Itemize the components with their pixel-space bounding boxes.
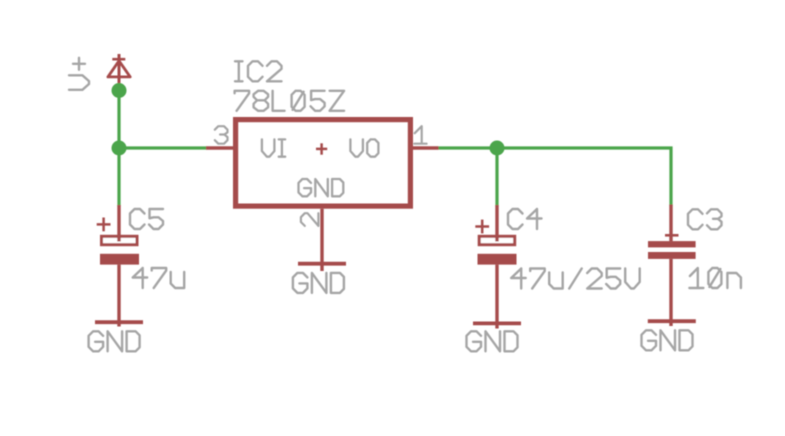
wire V+ down to C5: [117, 88, 120, 206]
IC2 name label: [235, 61, 282, 81]
pin number 3: [215, 126, 228, 144]
capacitor C5 top pin: [117, 205, 120, 242]
net label V+ (rotated): [69, 58, 89, 90]
capacitor C5 polarity +: [97, 218, 111, 232]
ground symbol below C4: [473, 321, 521, 325]
ground label GND below C3: [642, 330, 693, 350]
supply symbol V+ (arrow): [108, 54, 130, 89]
capacitor C4 positive plate (outline): [479, 236, 515, 244]
capacitor C5 bottom pin to ground: [117, 265, 120, 327]
ground symbol below C3: [648, 319, 696, 323]
capacitor C4 top pin: [495, 205, 498, 242]
wire VIN node to IC2 pin 3: [119, 146, 207, 149]
pin name VO: [350, 139, 378, 156]
C4 name label: [508, 209, 542, 229]
capacitor C4 bottom pin to ground: [495, 265, 498, 329]
capacitor C3 top plate: [648, 241, 696, 247]
C5 value label 47u: [133, 268, 185, 288]
C4 value label 47u/25V: [511, 269, 640, 289]
ground symbol below IC2: [298, 262, 346, 266]
ground symbol below C5: [95, 320, 143, 324]
IC2 value label 78L05Z: [235, 91, 345, 111]
wire VOUT node down to C4: [495, 148, 498, 206]
wire IC2 pin 1 to C3 (output net): [439, 148, 672, 206]
capacitor C3 bottom plate: [648, 252, 696, 259]
C3 name label: [688, 209, 722, 229]
junction node VOUT (branch to C4): [490, 141, 505, 156]
pin name GND: [299, 179, 344, 196]
polarity mark + inside IC2: [316, 143, 327, 154]
ground label GND below IC2: [293, 273, 344, 293]
regulator IC2 78L05Z body: [236, 120, 411, 207]
pin number 2 (rotated): [301, 213, 319, 226]
C3 value label 10n: [689, 268, 741, 288]
IC2 pin 2 stub (GND) down to ground: [320, 209, 323, 271]
capacitor C5 negative plate (filled): [100, 254, 139, 265]
capacitor C4 polarity +: [475, 220, 489, 234]
capacitor C3 top pin: [665, 205, 679, 242]
pin name VI: [262, 139, 285, 156]
capacitor C4 negative plate (filled): [478, 254, 517, 265]
IC2 pin 3 stub (VI): [206, 146, 233, 150]
ground label GND below C4: [467, 331, 518, 351]
junction node VIN (wire branch to IC pin 3): [112, 141, 127, 156]
ground label GND below C5: [89, 331, 140, 351]
capacitor C5 positive plate (outline): [102, 236, 138, 244]
capacitor C3 bottom pin to ground: [669, 259, 672, 326]
junction below V+ symbol: [112, 83, 127, 98]
IC2 pin 1 stub (VO): [413, 146, 439, 150]
C5 name label: [130, 209, 163, 229]
pin number 1: [414, 126, 426, 144]
